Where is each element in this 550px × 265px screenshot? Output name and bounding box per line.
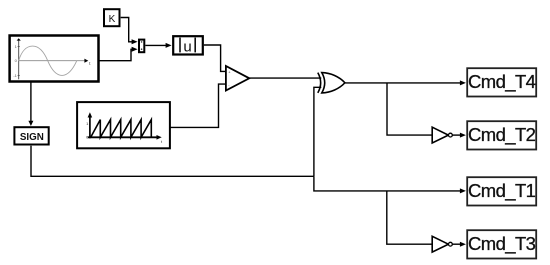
gain block K xyxy=(104,9,120,26)
wire: branch from XOR net down to NOT gate 1 xyxy=(387,83,432,135)
wire: branch from Cmd_T1 net down to NOT gate 2 xyxy=(387,191,432,244)
wire: sine block to SIGN xyxy=(28,82,33,126)
svg-text:Cmd_T4: Cmd_T4 xyxy=(468,71,536,93)
svg-text:u: u xyxy=(183,39,191,56)
svg-text:Cmd_T2: Cmd_T2 xyxy=(468,124,536,146)
comparator U1 xyxy=(226,66,249,91)
wire: comparator output to XOR input 1 xyxy=(249,77,321,79)
svg-text:K: K xyxy=(109,14,116,25)
svg-text:SIGN: SIGN xyxy=(20,132,44,143)
wire: sine output to multiplier input 2 xyxy=(99,47,137,61)
sawtooth carrier generator block xyxy=(77,102,170,148)
wire: XOR output to Cmd_T4 xyxy=(345,80,466,85)
sine wave source block xyxy=(10,36,99,82)
output block Cmd_T3 xyxy=(467,230,536,258)
svg-text:Cmd_T3: Cmd_T3 xyxy=(468,233,536,255)
wire: NOT gate 1 to Cmd_T2 xyxy=(452,133,466,138)
NOT gate 1 xyxy=(432,127,452,143)
wire: |u| to comparator + input xyxy=(204,45,225,71)
wire: K to multiplier input 1 xyxy=(121,18,138,45)
wire: sawtooth to comparator - input xyxy=(171,84,226,127)
wire: junction down and right to Cmd_T1 xyxy=(314,176,466,193)
XOR gate U2 xyxy=(318,73,345,93)
SIGN block xyxy=(14,127,48,144)
wire: multiplier to |u| xyxy=(145,43,171,48)
multiplier block xyxy=(139,40,144,53)
wire: SIGN output down and right to junction xyxy=(31,146,314,177)
NOT gate 2 xyxy=(432,236,452,252)
absolute value block |u| xyxy=(173,36,203,55)
wire: junction up to XOR input 2 xyxy=(314,87,321,176)
output block Cmd_T4 xyxy=(467,68,536,96)
output block Cmd_T2 xyxy=(467,121,536,149)
wire: NOT gate 2 to Cmd_T3 xyxy=(452,242,466,247)
svg-text:Cmd_T1: Cmd_T1 xyxy=(468,180,536,202)
output block Cmd_T1 xyxy=(467,177,536,205)
